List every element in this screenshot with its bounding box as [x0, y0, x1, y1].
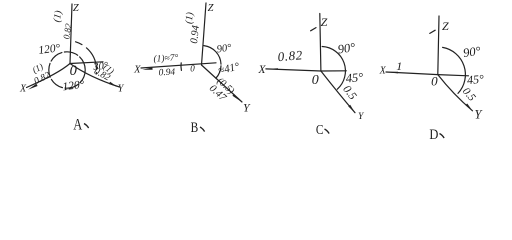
svg-text:0: 0: [312, 73, 319, 88]
axis Y (C): [321, 71, 355, 113]
horizontal reference line (A): [70, 62, 103, 64]
tick at Z top (D): [430, 30, 435, 33]
svg-text:Z: Z: [321, 15, 328, 29]
svg-text:Z: Z: [442, 19, 449, 33]
svg-text:X: X: [133, 64, 141, 75]
dashed angle circle r=18.2 (A): [49, 52, 85, 88]
axis Z (C): [320, 14, 321, 72]
svg-text:90°: 90°: [462, 44, 481, 60]
svg-text:X: X: [19, 84, 27, 95]
41-degree arc (B): [216, 66, 221, 78]
svg-text:0.94: 0.94: [158, 68, 175, 79]
svg-text:X: X: [379, 66, 387, 77]
svg-text:0.82: 0.82: [277, 47, 303, 64]
arrowhead on Y (A): [109, 82, 118, 87]
axis Y (A): [70, 64, 120, 88]
svg-text:45°: 45°: [345, 70, 364, 85]
axis X (C): [266, 69, 321, 71]
axis Y (D): [438, 75, 473, 111]
ideographic comma after C: [325, 129, 330, 134]
svg-text:0: 0: [190, 64, 195, 74]
axis X (D): [386, 72, 438, 75]
arrowhead on Y (C): [348, 105, 355, 113]
svg-text:1: 1: [396, 59, 402, 73]
arrowhead on X (C): [267, 68, 278, 70]
ideographic comma after D: [440, 134, 445, 139]
svg-text:A: A: [73, 116, 82, 133]
svg-text:0.94: 0.94: [189, 24, 202, 44]
arrowhead on Y (D): [465, 104, 472, 111]
svg-text:90°: 90°: [216, 42, 233, 55]
horizontal reference line (D): [438, 75, 469, 76]
axis Z (D): [438, 16, 439, 75]
arrowhead on X (D): [387, 72, 398, 74]
90-degree arc (C): [322, 47, 345, 90]
30-degree arc (A): [76, 42, 97, 74]
90-degree arc (B): [204, 46, 221, 65]
arrowhead on X (A): [28, 84, 38, 90]
svg-text:D: D: [429, 127, 438, 143]
arrowhead on X (B): [142, 67, 152, 69]
axis Z (A): [70, 4, 72, 64]
svg-text:(1)≈7°: (1)≈7°: [153, 52, 179, 64]
90-degree arc (D): [443, 47, 466, 93]
svg-text:X: X: [257, 64, 266, 76]
axis Y (B): [202, 65, 243, 102]
svg-text:0: 0: [431, 73, 438, 88]
svg-text:(1): (1): [52, 9, 65, 23]
svg-text:C: C: [316, 123, 324, 138]
svg-text:0: 0: [70, 63, 78, 79]
ideographic comma after B: [200, 127, 205, 132]
svg-text:(1): (1): [184, 11, 196, 24]
axis X (B): [141, 63, 216, 68]
svg-text:Z: Z: [73, 3, 79, 14]
svg-text:B: B: [191, 120, 199, 136]
svg-text:Z: Z: [208, 3, 214, 14]
horizontal reference line (C): [321, 70, 346, 72]
ideographic comma after A: [84, 124, 89, 129]
axis X (A): [27, 64, 71, 88]
svg-text:90°: 90°: [337, 40, 356, 56]
tick at Z top (C): [311, 28, 316, 31]
7-degree arc (B): [180, 63, 182, 71]
arrowhead on Y (B): [232, 94, 240, 102]
axis Z (B): [202, 3, 207, 65]
